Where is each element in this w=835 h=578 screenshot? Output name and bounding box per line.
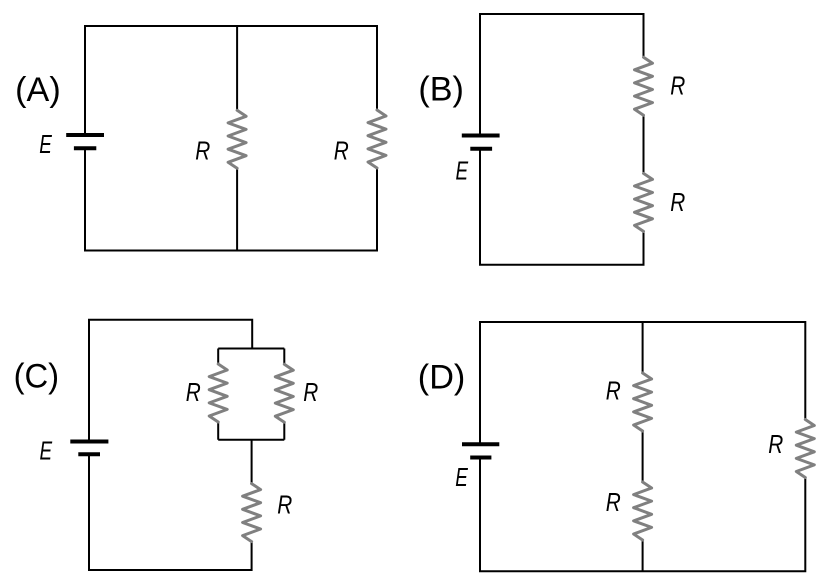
wire D outer loop with gaps [480,322,805,571]
svg-text:R: R [303,377,318,407]
svg-text:E: E [40,436,53,466]
svg-text:R: R [334,135,349,165]
svg-text:(C): (C) [14,357,60,395]
svg-text:R: R [186,377,201,407]
resistor R (D middle upper) [634,373,652,431]
battery E (circuit D) long plate [462,442,499,446]
wire B loop with gaps [480,14,644,265]
resistor R (A middle branch) [228,110,246,168]
svg-text:R: R [277,490,292,520]
svg-text:E: E [39,129,52,159]
wire A outer loop with battery and resistor gaps [85,26,377,251]
resistor R (C parallel left) [209,364,227,422]
svg-text:R: R [670,187,685,217]
resistor R (A right branch) [368,110,386,168]
svg-text:(B): (B) [418,70,464,108]
battery E (circuit A) long plate [66,133,104,137]
resistor R (B upper) [635,57,653,115]
battery E (circuit B) long plate [462,134,500,138]
svg-text:R: R [670,70,685,100]
resistor R (B lower) [635,173,653,231]
battery E (circuit C) long plate [70,440,108,444]
battery E (circuit A) short plate [74,146,96,150]
svg-text:E: E [455,462,468,492]
battery E (circuit B) short plate [470,147,492,151]
svg-text:(D): (D) [418,359,466,397]
svg-text:R: R [606,487,621,517]
battery E (circuit D) short plate [470,456,491,460]
battery E (circuit C) short plate [78,452,100,456]
svg-text:R: R [195,135,210,165]
wire C main loop [89,320,252,570]
resistor R (C series bottom) [243,484,261,542]
resistor R (C parallel right) [275,364,293,422]
wire C parallel box [218,349,284,440]
svg-text:R: R [768,429,783,459]
svg-text:R: R [606,375,621,405]
resistor R (D right branch) [796,420,814,478]
svg-text:E: E [456,155,469,185]
svg-text:(A): (A) [15,71,61,109]
resistor R (D middle lower) [634,482,652,540]
